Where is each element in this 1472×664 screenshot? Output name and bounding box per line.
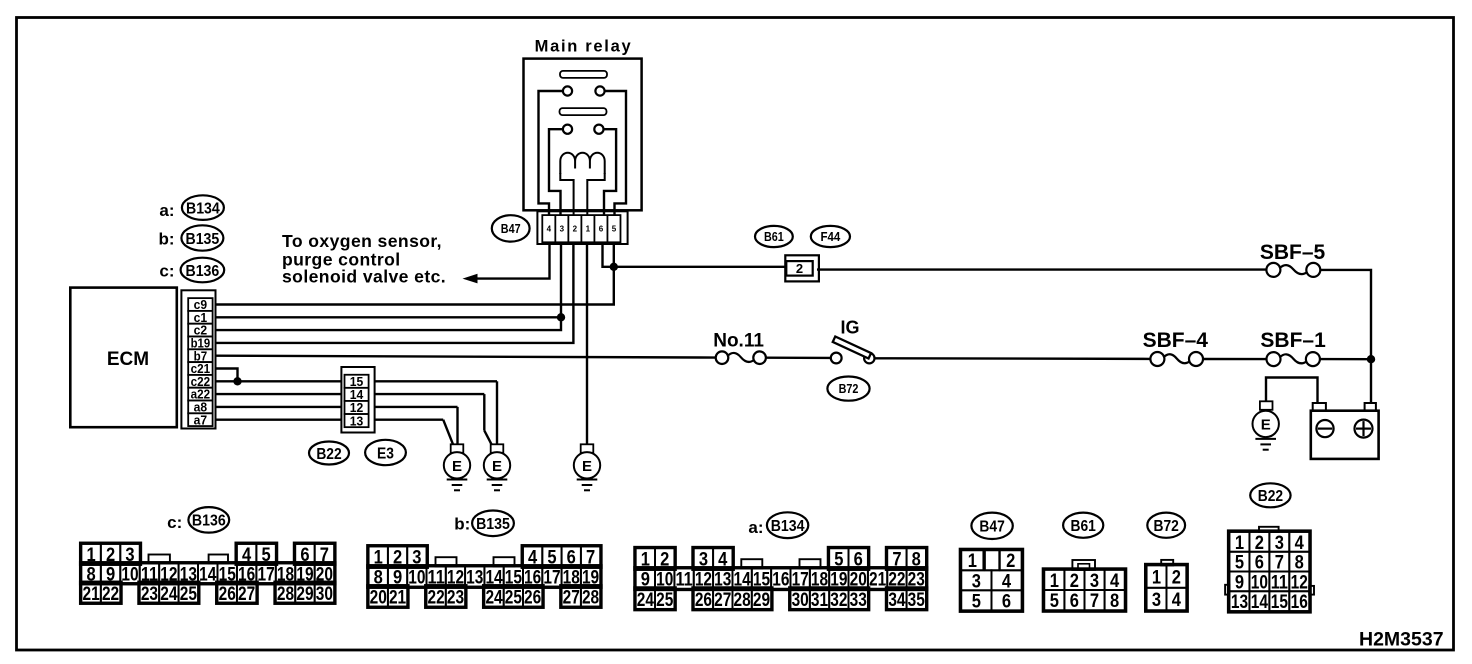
svg-text:25: 25 <box>180 583 197 605</box>
svg-text:a:: a: <box>748 518 763 537</box>
svg-text:1: 1 <box>1235 532 1244 554</box>
svg-text:28: 28 <box>277 583 294 605</box>
svg-text:10: 10 <box>121 563 138 585</box>
svg-text:16: 16 <box>772 569 789 591</box>
svg-text:IG: IG <box>840 318 859 338</box>
svg-text:32: 32 <box>830 589 847 611</box>
svg-text:a7: a7 <box>194 412 208 427</box>
svg-text:b:: b: <box>158 229 174 248</box>
svg-text:B47: B47 <box>501 222 521 236</box>
svg-text:15: 15 <box>1271 591 1288 613</box>
svg-text:26: 26 <box>219 583 236 605</box>
svg-text:H2M3537: H2M3537 <box>1359 629 1444 651</box>
svg-text:B22: B22 <box>316 446 341 463</box>
svg-text:17: 17 <box>543 567 560 589</box>
svg-text:30: 30 <box>316 583 333 605</box>
svg-text:13: 13 <box>1231 591 1248 613</box>
svg-text:E: E <box>452 458 462 475</box>
svg-text:27: 27 <box>714 589 731 611</box>
svg-text:26: 26 <box>695 589 712 611</box>
svg-text:25: 25 <box>656 589 673 611</box>
svg-text:26: 26 <box>524 587 541 609</box>
svg-text:2: 2 <box>573 225 578 234</box>
svg-text:SBF–5: SBF–5 <box>1260 241 1326 264</box>
svg-text:3: 3 <box>1090 570 1099 592</box>
svg-text:B135: B135 <box>476 516 510 533</box>
svg-text:F44: F44 <box>820 230 840 244</box>
svg-text:2: 2 <box>1172 567 1181 589</box>
svg-text:21: 21 <box>389 587 406 609</box>
svg-text:29: 29 <box>296 583 313 605</box>
svg-text:B136: B136 <box>192 513 226 530</box>
svg-text:E3: E3 <box>377 445 394 462</box>
svg-text:5: 5 <box>1050 590 1059 612</box>
svg-text:12: 12 <box>1291 571 1308 593</box>
svg-text:21: 21 <box>869 569 886 591</box>
svg-text:6: 6 <box>1070 590 1079 612</box>
svg-text:1: 1 <box>968 550 977 572</box>
svg-text:B72: B72 <box>839 382 859 396</box>
svg-text:17: 17 <box>257 563 274 585</box>
svg-text:b:: b: <box>454 515 470 534</box>
svg-text:23: 23 <box>447 587 464 609</box>
svg-text:20: 20 <box>370 587 387 609</box>
svg-text:16: 16 <box>1291 591 1308 613</box>
svg-text:9: 9 <box>1235 571 1244 593</box>
svg-text:13: 13 <box>466 567 483 589</box>
svg-text:11: 11 <box>1271 571 1288 593</box>
svg-text:31: 31 <box>811 589 828 611</box>
svg-text:11: 11 <box>675 569 692 591</box>
svg-text:28: 28 <box>582 587 599 609</box>
svg-text:24: 24 <box>485 587 502 609</box>
svg-text:3: 3 <box>1275 532 1284 554</box>
svg-text:No.11: No.11 <box>713 331 764 352</box>
svg-text:5: 5 <box>612 225 617 234</box>
svg-text:21: 21 <box>83 583 100 605</box>
svg-text:7: 7 <box>1090 590 1099 612</box>
svg-text:6: 6 <box>1002 590 1011 612</box>
svg-text:27: 27 <box>238 583 255 605</box>
svg-text:2: 2 <box>1070 570 1079 592</box>
svg-text:4: 4 <box>1172 589 1181 611</box>
svg-text:24: 24 <box>637 589 654 611</box>
svg-text:2: 2 <box>1255 532 1264 554</box>
svg-text:3: 3 <box>1152 589 1161 611</box>
svg-text:E: E <box>582 458 592 475</box>
svg-text:B136: B136 <box>185 263 219 280</box>
svg-text:27: 27 <box>563 587 580 609</box>
svg-text:a:: a: <box>159 201 174 220</box>
svg-text:c:: c: <box>159 262 174 281</box>
svg-text:1: 1 <box>1050 570 1059 592</box>
svg-text:2: 2 <box>1006 550 1015 572</box>
svg-text:B47: B47 <box>979 519 1004 536</box>
svg-text:28: 28 <box>734 589 751 611</box>
svg-text:SBF–1: SBF–1 <box>1260 329 1326 352</box>
svg-text:4: 4 <box>1295 532 1304 554</box>
svg-text:4: 4 <box>1110 570 1119 592</box>
svg-text:solenoid valve etc.: solenoid valve etc. <box>282 267 446 287</box>
svg-text:To oxygen sensor,: To oxygen sensor, <box>282 231 442 251</box>
svg-text:3: 3 <box>972 570 981 592</box>
svg-text:4: 4 <box>1002 570 1011 592</box>
svg-text:Main relay: Main relay <box>535 38 633 56</box>
svg-text:33: 33 <box>850 589 867 611</box>
svg-text:B72: B72 <box>1154 518 1179 535</box>
svg-text:B22: B22 <box>1258 488 1283 505</box>
svg-text:c:: c: <box>167 513 182 532</box>
svg-text:8: 8 <box>1110 590 1119 612</box>
svg-text:3: 3 <box>560 225 565 234</box>
svg-text:7: 7 <box>1275 552 1284 574</box>
svg-text:5: 5 <box>1235 552 1244 574</box>
svg-text:4: 4 <box>547 225 552 234</box>
svg-text:22: 22 <box>102 583 119 605</box>
svg-text:6: 6 <box>599 225 604 234</box>
svg-text:25: 25 <box>505 587 522 609</box>
svg-text:14: 14 <box>199 563 216 585</box>
svg-text:34: 34 <box>888 589 905 611</box>
svg-text:2: 2 <box>796 261 803 276</box>
svg-text:24: 24 <box>160 583 177 605</box>
svg-text:1: 1 <box>1152 567 1161 589</box>
svg-text:B61: B61 <box>1071 518 1096 535</box>
svg-text:35: 35 <box>908 589 925 611</box>
svg-text:30: 30 <box>792 589 809 611</box>
svg-text:10: 10 <box>1251 571 1268 593</box>
svg-text:6: 6 <box>1255 552 1264 574</box>
svg-text:14: 14 <box>1251 591 1268 613</box>
svg-text:22: 22 <box>428 587 445 609</box>
svg-text:B135: B135 <box>185 231 219 248</box>
svg-text:ECM: ECM <box>107 349 149 370</box>
svg-text:29: 29 <box>753 589 770 611</box>
svg-text:1: 1 <box>586 225 591 234</box>
svg-text:10: 10 <box>408 567 425 589</box>
svg-text:E: E <box>492 458 502 475</box>
svg-text:B134: B134 <box>771 518 805 535</box>
svg-text:E: E <box>1261 416 1271 433</box>
svg-text:SBF–4: SBF–4 <box>1143 329 1209 352</box>
svg-text:5: 5 <box>972 590 981 612</box>
svg-text:13: 13 <box>350 413 364 428</box>
svg-text:23: 23 <box>141 583 158 605</box>
svg-text:B134: B134 <box>186 200 220 217</box>
svg-text:8: 8 <box>1295 552 1304 574</box>
svg-text:B61: B61 <box>764 230 784 244</box>
